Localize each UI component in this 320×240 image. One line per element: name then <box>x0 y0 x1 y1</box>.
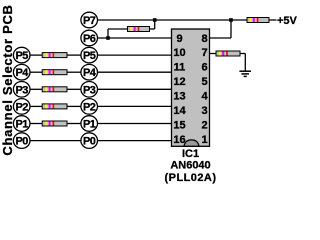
svg-text:5: 5 <box>201 76 207 88</box>
svg-text:+5V: +5V <box>277 15 298 27</box>
svg-text:16: 16 <box>173 134 185 146</box>
svg-text:P1: P1 <box>83 119 96 131</box>
svg-text:Channel Selector PCB: Channel Selector PCB <box>0 4 15 155</box>
svg-text:IC1: IC1 <box>182 148 199 160</box>
svg-text:10: 10 <box>173 47 185 59</box>
svg-text:P3: P3 <box>83 84 96 96</box>
svg-text:P4: P4 <box>15 67 29 79</box>
svg-text:P6: P6 <box>83 33 96 45</box>
svg-text:P1: P1 <box>15 119 28 131</box>
svg-text:6: 6 <box>201 62 207 74</box>
svg-text:8: 8 <box>201 33 207 45</box>
svg-text:14: 14 <box>173 105 186 117</box>
svg-text:1: 1 <box>201 134 207 146</box>
svg-text:11: 11 <box>174 62 186 74</box>
svg-text:P0: P0 <box>83 136 96 148</box>
svg-text:2: 2 <box>201 120 207 132</box>
svg-text:P7: P7 <box>83 15 96 27</box>
svg-text:(PLL02A): (PLL02A) <box>165 172 217 184</box>
svg-text:P2: P2 <box>83 101 96 113</box>
svg-text:15: 15 <box>173 120 185 132</box>
svg-text:AN6040: AN6040 <box>170 160 210 172</box>
svg-text:4: 4 <box>201 91 208 103</box>
svg-text:9: 9 <box>176 33 182 45</box>
svg-text:3: 3 <box>201 105 207 117</box>
svg-text:P5: P5 <box>15 50 28 62</box>
svg-text:P0: P0 <box>15 136 28 148</box>
svg-text:P4: P4 <box>83 67 97 79</box>
svg-text:P3: P3 <box>15 84 28 96</box>
svg-text:P5: P5 <box>83 50 96 62</box>
svg-text:13: 13 <box>173 91 185 103</box>
svg-text:7: 7 <box>201 47 207 59</box>
svg-text:P2: P2 <box>15 101 28 113</box>
svg-text:12: 12 <box>173 76 185 88</box>
